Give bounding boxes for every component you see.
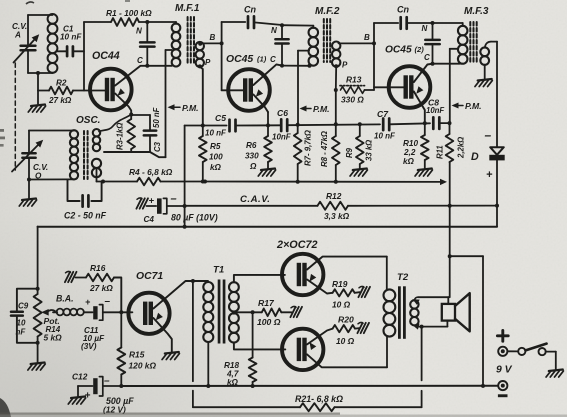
svg-text:kΩ: kΩ	[403, 157, 415, 166]
label Cn1	[244, 5, 256, 15]
label 100 R17	[257, 317, 281, 327]
label C.A.V.	[240, 194, 270, 205]
OC71 collector wire	[153, 281, 208, 309]
svg-text:OC44: OC44	[92, 50, 120, 62]
T1 primary winding	[203, 281, 213, 342]
label OC44	[92, 50, 120, 62]
svg-text:Ω: Ω	[249, 162, 257, 171]
svg-text:OSC.: OSC.	[76, 115, 100, 126]
OC72u collector wire	[307, 257, 387, 270]
node pot bottom	[36, 341, 40, 345]
antenna coil L1	[28, 14, 57, 73]
label R6	[245, 141, 259, 171]
potentiometer R14	[34, 289, 42, 343]
node B1	[220, 41, 224, 45]
wire B2 riser	[373, 23, 375, 90]
capacitor C6	[281, 119, 287, 131]
label OC45(1)	[226, 54, 267, 65]
MF3 primary winding	[433, 23, 468, 64]
label R12	[326, 191, 342, 201]
label minus C12	[104, 376, 110, 387]
label C7	[377, 109, 389, 119]
label plus C4	[149, 196, 155, 207]
wire R11 long riser	[449, 162, 451, 297]
svg-text:10: 10	[17, 319, 26, 328]
label OC71	[136, 271, 163, 282]
wire R3C3 bottom	[104, 152, 166, 157]
svg-text:+: +	[85, 391, 91, 402]
scan artifact bottom streak	[0, 413, 567, 417]
label T2	[397, 272, 409, 283]
label R3-1k	[116, 123, 125, 150]
node emitter1 line	[266, 123, 270, 127]
label R8-47k	[320, 131, 329, 167]
svg-text:P: P	[342, 61, 348, 70]
svg-text:2,2: 2,2	[403, 148, 416, 157]
node antenna bottom	[36, 71, 40, 75]
svg-text:R7- 9,7kΩ: R7- 9,7kΩ	[304, 130, 313, 166]
ground R6	[258, 169, 275, 177]
svg-text:2×OC72: 2×OC72	[276, 239, 318, 251]
svg-text:330 Ω: 330 Ω	[341, 95, 364, 105]
wire coupling seg2	[236, 124, 281, 126]
label N2	[271, 26, 277, 35]
label B.A.	[56, 294, 74, 304]
svg-text:(1): (1)	[257, 55, 267, 64]
resistor R17	[253, 309, 292, 317]
svg-text:OC45: OC45	[226, 54, 253, 65]
svg-text:N: N	[271, 26, 277, 35]
node OC44 collector	[145, 64, 149, 68]
label R5	[209, 142, 223, 172]
OC72u emitter wire	[307, 274, 333, 294]
wire B1 riser	[221, 22, 223, 90]
label minus battery	[498, 394, 508, 397]
OSC osc winding	[92, 159, 101, 177]
label 2xOC72	[276, 239, 318, 251]
wire coupling seg1	[185, 125, 227, 127]
svg-text:80 µF (10V): 80 µF (10V)	[171, 213, 218, 223]
wire P2 down	[334, 64, 338, 90]
node N1	[145, 20, 149, 24]
MF3 secondary ground	[475, 65, 492, 87]
T1 primary bottom riser	[206, 342, 210, 388]
variable capacitor C.V. A	[14, 15, 40, 73]
MF1 core	[188, 17, 194, 64]
capacitor C9	[11, 289, 38, 343]
svg-text:C9: C9	[18, 302, 29, 311]
label C5	[215, 113, 226, 123]
capacitor C2	[68, 179, 102, 206]
label 10nF C5	[205, 129, 227, 138]
svg-text:M.F.3: M.F.3	[464, 6, 489, 17]
ground R10	[415, 169, 432, 177]
svg-text:R15: R15	[129, 350, 145, 360]
node OC45-1 collector	[280, 64, 310, 68]
T1 secondary bottom wire	[234, 343, 285, 350]
scan artifact left edge marks	[0, 129, 5, 147]
svg-text:R17: R17	[258, 298, 275, 308]
resistor R21	[300, 403, 335, 411]
label C8	[426, 98, 444, 116]
chassis squiggle C4	[136, 198, 148, 209]
label N1	[136, 27, 142, 36]
ground OC71 emitter	[162, 352, 179, 360]
label 10nF C6	[272, 133, 292, 142]
wire main bus	[38, 225, 497, 229]
label C4	[144, 215, 155, 224]
resistor R13	[340, 86, 374, 94]
resistor R6	[264, 112, 272, 168]
svg-text:T1: T1	[213, 265, 224, 276]
label Cn2	[397, 5, 409, 15]
label R10	[403, 139, 418, 166]
OC45-1 base wire	[222, 89, 244, 91]
svg-text:B: B	[210, 33, 216, 42]
svg-text:3,3 kΩ: 3,3 kΩ	[324, 211, 350, 221]
wire vertical x184	[184, 126, 186, 227]
capacitor C11 electrolytic	[93, 305, 132, 321]
svg-text:+: +	[85, 297, 91, 307]
pot wiper	[41, 309, 55, 316]
OC45-2 collector wire	[414, 64, 433, 82]
chassis squiggle R19	[358, 286, 370, 297]
capacitor C4 electrolytic	[147, 198, 185, 213]
T2 secondary top wire	[413, 297, 449, 305]
node R18 bottom	[251, 384, 255, 388]
OSC core	[84, 131, 88, 179]
svg-text:C: C	[137, 56, 143, 65]
svg-text:5 kΩ: 5 kΩ	[44, 333, 63, 343]
ground R9	[350, 169, 367, 177]
svg-text:C: C	[424, 53, 430, 62]
capacitor C7	[383, 119, 389, 131]
ground C12	[68, 386, 85, 404]
switch	[518, 344, 556, 356]
label B2	[364, 33, 370, 42]
svg-text:M.F.1: M.F.1	[175, 3, 200, 14]
svg-text:R11: R11	[436, 145, 445, 159]
label 500uF	[103, 396, 134, 415]
label 330	[341, 95, 364, 105]
label 3,3k	[324, 211, 350, 221]
wire P1 down	[198, 64, 203, 125]
capacitor C8	[433, 117, 439, 129]
MF2 tap wire	[298, 51, 309, 125]
label minus C4	[171, 193, 177, 205]
svg-text:A: A	[14, 31, 21, 40]
MF3 secondary winding	[480, 47, 489, 64]
label C3n	[424, 53, 430, 62]
label T1	[213, 265, 224, 276]
resistor R10	[421, 123, 429, 168]
OSC feedback winding	[93, 129, 100, 151]
node R13 left	[334, 88, 338, 92]
svg-text:C3: C3	[153, 141, 162, 152]
label R9	[345, 140, 374, 161]
wire CAV right	[348, 204, 497, 208]
label R7-9,7k	[304, 130, 313, 166]
svg-text:kΩ: kΩ	[227, 378, 239, 387]
capacitor C12 electrolytic	[78, 377, 121, 396]
svg-text:–: –	[104, 376, 110, 387]
speaker	[442, 293, 470, 331]
svg-text:C2 - 50 nF: C2 - 50 nF	[64, 211, 107, 221]
battery minus terminal	[498, 381, 507, 390]
OC72l collector wire	[307, 354, 387, 367]
OC44 emitter wire	[115, 88, 131, 114]
svg-text:C.A.V.: C.A.V.	[240, 194, 270, 205]
svg-text:R16: R16	[90, 263, 106, 273]
diode D	[489, 147, 504, 226]
resistor R18	[249, 312, 257, 386]
wire battery bus	[121, 385, 497, 387]
label R19	[332, 279, 348, 289]
svg-text:R10: R10	[403, 139, 418, 148]
MF1 primary winding	[147, 22, 180, 67]
svg-text:100: 100	[209, 153, 223, 162]
T1 secondary winding A	[229, 282, 239, 311]
transistor OC44	[90, 69, 132, 111]
svg-text:27 kΩ: 27 kΩ	[48, 96, 72, 105]
wire CAV left	[185, 205, 318, 207]
svg-text:R3-1kΩ: R3-1kΩ	[116, 123, 125, 150]
MF2 core	[324, 19, 330, 62]
label R2 27k	[48, 79, 72, 106]
label plus C12	[85, 391, 91, 402]
ground pot	[28, 343, 45, 370]
wire OC72l to T2	[386, 336, 388, 367]
svg-text:(2): (2)	[415, 45, 425, 54]
label P.M.2	[300, 104, 330, 114]
svg-text:R8 - 47kΩ: R8 - 47kΩ	[320, 131, 329, 167]
svg-text:B.A.: B.A.	[56, 294, 74, 304]
label plus det	[486, 169, 493, 181]
node R17 left	[251, 310, 255, 314]
svg-text:M.F.2: M.F.2	[315, 6, 340, 17]
label M.F.1	[175, 3, 200, 14]
resistor R19	[333, 289, 360, 296]
label C6	[277, 108, 288, 118]
svg-text:2,2kΩ: 2,2kΩ	[457, 137, 466, 159]
T2 secondary winding	[410, 300, 418, 325]
label R18	[224, 361, 239, 387]
svg-text:P: P	[205, 58, 211, 67]
svg-text:C: C	[270, 55, 276, 64]
label R1-100k	[106, 8, 152, 18]
svg-text:R19: R19	[332, 279, 348, 289]
label C OC44	[137, 56, 143, 65]
svg-text:–: –	[485, 128, 492, 142]
node R9	[358, 122, 362, 126]
node R10	[423, 121, 427, 125]
resistor R11	[446, 123, 454, 162]
capacitor C1	[57, 47, 84, 57]
MF3 secondary top wire	[485, 42, 497, 48]
node OC45-2 collector	[431, 62, 460, 66]
wire CVO bottom	[29, 178, 68, 180]
svg-text:D: D	[471, 151, 479, 163]
resistor R12	[318, 202, 349, 210]
svg-text:–: –	[171, 193, 177, 205]
wire coupling seg3	[287, 123, 380, 126]
svg-text:10 Ω: 10 Ω	[332, 300, 351, 310]
label C2n	[270, 55, 276, 64]
svg-text:P.M.: P.M.	[182, 103, 199, 113]
svg-text:27 kΩ: 27 kΩ	[89, 283, 113, 293]
svg-text:10 nF: 10 nF	[205, 129, 227, 138]
svg-text:R4 - 6,8 kΩ: R4 - 6,8 kΩ	[129, 167, 173, 177]
wire antenna to R2/ground	[37, 73, 39, 91]
chassis squiggle R17	[290, 306, 302, 317]
wire collector to MF1	[147, 65, 172, 67]
label 9V	[496, 365, 513, 376]
transistor OC72 upper	[282, 254, 323, 295]
label 50nF	[152, 107, 161, 128]
svg-text:T2: T2	[397, 272, 409, 283]
label R4-6,8k	[129, 167, 173, 177]
svg-text:120 kΩ: 120 kΩ	[129, 361, 157, 371]
resistor R5	[199, 126, 207, 184]
svg-text:R1 - 100 kΩ: R1 - 100 kΩ	[106, 8, 152, 18]
svg-text:10nF: 10nF	[272, 133, 292, 142]
MF3 tap wire	[450, 49, 458, 123]
svg-text:C5: C5	[215, 113, 226, 123]
node P1R5	[201, 124, 205, 128]
label 10 R19	[332, 300, 351, 310]
wire branch to battery bus	[448, 254, 483, 386]
label C.V. O	[33, 163, 48, 181]
svg-text:N: N	[136, 27, 142, 36]
ground antenna	[28, 91, 45, 113]
svg-text:R13: R13	[346, 75, 362, 85]
wire supply line right	[161, 179, 448, 185]
antenna tuning gang dashed link	[14, 63, 16, 170]
wire R21 riser	[421, 327, 423, 408]
wire OC72u to T2	[386, 257, 388, 291]
node OSC bottom	[97, 168, 106, 184]
node R11	[448, 121, 452, 125]
svg-text:(3V): (3V)	[81, 342, 97, 351]
svg-text:R20: R20	[338, 315, 354, 325]
label P.M.3	[452, 101, 482, 111]
label C2-50nF	[64, 211, 107, 221]
resistor R1	[84, 18, 147, 26]
scan artifact top mark	[26, 0, 130, 4]
label Pot R14	[44, 316, 63, 343]
label 27k R16	[89, 283, 113, 293]
node OC71 collector	[191, 279, 195, 283]
label N3	[422, 24, 428, 33]
T1 core	[218, 280, 226, 344]
label plus battery	[497, 330, 508, 341]
node pot top	[36, 287, 40, 291]
T2 core	[398, 286, 406, 339]
svg-text:Cn: Cn	[244, 5, 256, 15]
MF3 tuning capacitor	[425, 23, 439, 64]
OC45-1 emitter wire	[253, 89, 268, 112]
node N2	[280, 23, 284, 27]
OSC primary winding	[29, 130, 78, 179]
svg-text:kΩ: kΩ	[210, 163, 222, 172]
svg-text:C12: C12	[72, 372, 88, 382]
MF2 primary winding	[282, 25, 318, 65]
resistor R20	[333, 325, 360, 332]
capacitor Cn2	[374, 17, 433, 29]
wire R21 line	[193, 406, 422, 408]
label OC45(2)	[385, 45, 424, 56]
OC71 emitter wire	[153, 313, 171, 352]
label 10nF C9	[16, 319, 27, 337]
label R11	[436, 137, 466, 159]
label P1	[205, 58, 211, 67]
label R16	[90, 263, 106, 273]
MF3 core	[470, 22, 476, 62]
T2 primary winding	[384, 289, 396, 336]
label C12	[72, 372, 88, 382]
MF1 secondary top wire	[198, 42, 221, 46]
resistor R3	[127, 115, 135, 153]
T1 secondary top wire	[234, 275, 285, 282]
svg-text:P.M.: P.M.	[313, 104, 330, 114]
label R15	[129, 350, 157, 371]
label minus det	[485, 128, 492, 142]
inductor BA	[53, 309, 93, 316]
label B1	[210, 33, 216, 42]
svg-text:R9: R9	[345, 147, 354, 158]
T1 secondary winding B	[229, 313, 239, 342]
svg-text:+: +	[486, 169, 493, 181]
svg-text:C7: C7	[377, 109, 389, 119]
transistor OC45(2)	[389, 66, 431, 108]
svg-text:10 Ω: 10 Ω	[336, 336, 355, 346]
wire coupling seg4	[389, 123, 430, 124]
battery plus terminal	[498, 347, 507, 356]
MF1 tap wire to PM line	[166, 50, 173, 157]
wire base bus OC44	[38, 22, 105, 91]
resistor R4	[103, 178, 161, 186]
node R8	[334, 122, 338, 126]
node battery branch	[481, 384, 485, 388]
svg-text:OC45: OC45	[385, 45, 412, 56]
svg-text:50 nF: 50 nF	[152, 107, 161, 128]
label 10nF C7	[374, 132, 396, 141]
svg-text:nF: nF	[16, 328, 27, 337]
capacitor C5	[230, 120, 236, 132]
svg-text:P.M.: P.M.	[465, 101, 482, 111]
resistor R9	[356, 124, 364, 168]
chassis squiggle R16	[65, 271, 77, 282]
resistor R16	[76, 274, 122, 313]
wire diode riser	[496, 42, 498, 147]
wire volume riser	[37, 227, 39, 289]
node N3	[431, 21, 435, 25]
resistor R8	[332, 90, 340, 184]
resistor R7	[294, 125, 302, 184]
OC44 collector wire	[115, 66, 147, 86]
node MF2 bottom	[308, 64, 312, 68]
MF2 secondary winding	[332, 42, 340, 67]
label 80uF	[171, 213, 218, 223]
label C11	[81, 326, 105, 351]
svg-text:R5: R5	[210, 142, 221, 151]
svg-text:C6: C6	[277, 108, 288, 118]
label R13	[346, 75, 362, 85]
OC45-2 base wire	[374, 86, 404, 88]
node R7	[296, 123, 300, 127]
MF2 secondary top wire	[339, 42, 375, 44]
label M.F.2	[315, 6, 340, 17]
